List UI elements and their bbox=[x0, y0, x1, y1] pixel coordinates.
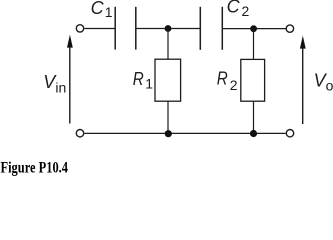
label Vo bbox=[314, 71, 333, 94]
svg-text:C: C bbox=[227, 0, 241, 17]
label C2 bbox=[227, 0, 250, 19]
wire node B down to R2 bbox=[253, 29, 255, 60]
label Vin bbox=[43, 72, 66, 96]
terminal top-left bbox=[76, 25, 83, 32]
bottom rail wire bbox=[84, 132, 285, 134]
label R1 bbox=[133, 69, 154, 91]
svg-text:2: 2 bbox=[230, 77, 238, 93]
arrow Vo bbox=[300, 36, 306, 124]
wire top-left to C1 bbox=[84, 28, 115, 30]
node B junction dot bbox=[250, 25, 257, 32]
wire node A down to R1 bbox=[167, 29, 169, 60]
node A junction dot bbox=[165, 25, 172, 32]
label R2 bbox=[217, 69, 238, 93]
node B2 junction dot bbox=[250, 130, 257, 137]
wire C2 to top-right terminal bbox=[222, 28, 285, 30]
svg-text:C: C bbox=[91, 0, 105, 18]
svg-text:in: in bbox=[55, 80, 66, 96]
terminal top-right bbox=[286, 25, 293, 32]
svg-text:1: 1 bbox=[105, 4, 113, 20]
capacitor C1 bbox=[115, 7, 136, 50]
capacitor C2 bbox=[200, 7, 222, 50]
svg-text:R: R bbox=[217, 69, 228, 89]
resistor R1 bbox=[155, 59, 181, 101]
terminal bottom-right bbox=[286, 130, 293, 137]
node A2 junction dot bbox=[165, 130, 172, 137]
resistor R2 bbox=[241, 59, 265, 101]
svg-text:R: R bbox=[133, 69, 144, 89]
svg-text:o: o bbox=[326, 77, 333, 93]
label C1 bbox=[91, 0, 113, 20]
svg-text:2: 2 bbox=[242, 3, 250, 19]
wire R2 to bottom rail bbox=[253, 101, 255, 133]
svg-text:1: 1 bbox=[145, 75, 153, 91]
wire R1 to bottom rail bbox=[167, 101, 169, 134]
arrow Vin bbox=[67, 35, 73, 124]
svg-text:Figure P10.4: Figure P10.4 bbox=[1, 160, 69, 177]
terminal bottom-left bbox=[76, 130, 83, 137]
wire C1 to C2 bbox=[136, 28, 201, 30]
